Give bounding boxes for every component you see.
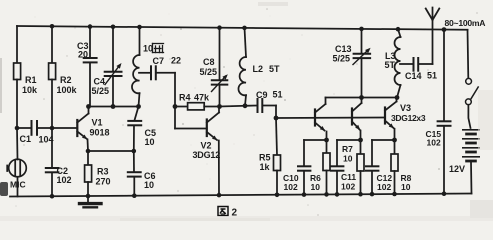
transistor V2 3DG12 xyxy=(175,107,220,196)
capacitor C7 xyxy=(139,56,181,80)
svg-text:51: 51 xyxy=(273,90,283,100)
inductor L2 5T xyxy=(238,28,280,106)
svg-text:R7: R7 xyxy=(342,144,353,154)
capacitor C14 xyxy=(400,58,437,81)
ground xyxy=(80,196,102,207)
node V2 emitter bottom xyxy=(217,193,222,198)
svg-text:C11: C11 xyxy=(341,172,356,182)
node C4 top rail xyxy=(111,25,116,30)
battery 12V xyxy=(449,130,479,194)
scan smudge bottom edge xyxy=(120,218,270,221)
svg-text:20: 20 xyxy=(78,50,88,60)
svg-text:47k: 47k xyxy=(194,93,210,103)
inductor L1 10 turns xyxy=(132,27,164,107)
node L1 bottom / C5 top xyxy=(136,104,141,109)
svg-text:9018: 9018 xyxy=(90,128,110,138)
capacitor C6 xyxy=(128,151,156,196)
svg-text:5T: 5T xyxy=(385,60,396,70)
node L2 top rail xyxy=(242,26,247,31)
wire C7 down to V2 base node xyxy=(174,73,176,107)
node C11 bottom xyxy=(335,192,340,197)
svg-text:3DG12: 3DG12 xyxy=(193,150,221,160)
node C13 bottom on bus xyxy=(359,95,364,100)
svg-text:80~100mA: 80~100mA xyxy=(445,18,486,28)
node C10 bottom xyxy=(302,192,307,197)
svg-text:R1: R1 xyxy=(25,75,37,85)
node R5 bottom xyxy=(275,193,280,198)
wire emitter line to C5/C6 xyxy=(88,150,134,152)
svg-text:10k: 10k xyxy=(22,85,38,95)
capacitor C2 xyxy=(46,128,72,196)
resistor R7 xyxy=(342,140,364,194)
svg-text:R5: R5 xyxy=(259,153,271,163)
scan smudge bottom-left xyxy=(0,182,8,196)
svg-text:C1: C1 xyxy=(20,134,32,144)
svg-text:102: 102 xyxy=(284,182,298,192)
inductor L3 5T xyxy=(385,29,401,97)
svg-text:C7: C7 xyxy=(153,56,165,66)
resistor R8 xyxy=(391,140,412,194)
resistor R5 xyxy=(259,118,281,195)
capacitor C1 xyxy=(17,121,54,145)
node C8 top rail xyxy=(217,25,222,30)
svg-text:10: 10 xyxy=(143,44,153,54)
svg-text:51: 51 xyxy=(427,71,437,81)
svg-text:MIC: MIC xyxy=(10,180,26,190)
node C4 bottom xyxy=(111,104,116,109)
svg-text:1k: 1k xyxy=(260,162,271,172)
node C3 top rail xyxy=(88,24,93,29)
svg-text:5/25: 5/25 xyxy=(200,67,218,77)
svg-text:10: 10 xyxy=(343,154,353,164)
node R2 / C1 / C2 / V1 base xyxy=(50,126,55,131)
svg-text:L2: L2 xyxy=(253,64,264,74)
resistor R6 xyxy=(310,140,330,194)
variable capacitor C8 xyxy=(200,28,228,107)
wire V2 collector to L2/C9 xyxy=(220,105,246,108)
svg-text:100k: 100k xyxy=(57,85,78,95)
svg-text:102: 102 xyxy=(57,175,72,185)
node V1 emitter xyxy=(86,149,91,154)
node R3 bottom xyxy=(86,194,91,199)
node base of R1 / mic junction xyxy=(15,126,20,131)
transistor V1 9018 xyxy=(52,107,110,152)
wire tank bottom line xyxy=(89,106,139,108)
svg-text:10: 10 xyxy=(145,137,155,147)
microphone MIC xyxy=(7,128,26,196)
svg-text:C14: C14 xyxy=(405,71,422,81)
svg-text:10: 10 xyxy=(144,180,154,190)
svg-text:V1: V1 xyxy=(92,118,103,128)
svg-text:10: 10 xyxy=(401,182,411,192)
caption 图 2 xyxy=(218,207,228,216)
svg-text:12V: 12V xyxy=(449,164,465,174)
wire C9 corner down to base bus xyxy=(275,106,277,119)
node C15 bottom xyxy=(442,191,447,196)
transistor V3b xyxy=(352,98,362,141)
svg-text:270: 270 xyxy=(96,177,111,187)
resistor R2 xyxy=(49,26,78,128)
node L2 bottom xyxy=(243,103,248,108)
svg-text:C8: C8 xyxy=(203,57,215,67)
svg-text:R4: R4 xyxy=(179,93,191,103)
svg-text:102: 102 xyxy=(427,138,441,148)
switch S xyxy=(466,30,479,128)
node V1 collector / tank xyxy=(86,104,91,109)
wire bottom ground rail xyxy=(10,194,472,197)
svg-text:22: 22 xyxy=(171,56,181,66)
node R2 top rail xyxy=(50,24,55,29)
node L3 bottom on bus xyxy=(395,95,400,100)
node C12 bottom xyxy=(370,192,375,197)
svg-text:R3: R3 xyxy=(97,167,109,177)
svg-text:R2: R2 xyxy=(60,75,72,85)
wire base bus of V3 xyxy=(276,117,385,120)
svg-text:3DG12x3: 3DG12x3 xyxy=(391,113,426,123)
capacitor C11 xyxy=(331,140,361,194)
wire V3 collector bus xyxy=(326,97,398,99)
svg-text:5T: 5T xyxy=(269,64,280,74)
node C12/emitter V3c xyxy=(392,138,397,143)
svg-text:102: 102 xyxy=(377,182,391,192)
scan smudge left edge xyxy=(0,58,2,113)
variable capacitor C13 xyxy=(333,29,371,98)
node L3 top rail xyxy=(396,27,401,32)
node C2 bottom xyxy=(50,194,55,199)
node R4 / C7 / V2 base xyxy=(173,104,178,109)
node C13 top rail xyxy=(359,27,364,32)
node R6 bottom xyxy=(324,192,329,197)
svg-text:5/25: 5/25 xyxy=(92,86,110,96)
capacitor C15 xyxy=(426,30,451,194)
capacitor C3 xyxy=(77,27,97,107)
capacitor C9 xyxy=(245,90,283,113)
resistor R4 xyxy=(175,93,220,110)
capacitor C5 xyxy=(128,107,156,152)
svg-text:C9: C9 xyxy=(256,90,268,100)
node R5 / base bus xyxy=(274,116,279,121)
transistor V3c xyxy=(385,98,426,141)
svg-text:V3: V3 xyxy=(400,103,411,113)
node R8 bottom xyxy=(392,192,397,197)
svg-text:102: 102 xyxy=(341,182,355,192)
scan smudge right bottom xyxy=(470,200,493,218)
svg-text:V2: V2 xyxy=(201,141,212,151)
transistor V3a xyxy=(315,98,327,141)
resistor R1 xyxy=(14,26,38,128)
variable capacitor C4 xyxy=(92,27,122,107)
node C6 bottom xyxy=(132,193,137,198)
wire top supply rail xyxy=(17,26,468,30)
capacitor C12 xyxy=(366,140,395,194)
node C10/emitter V3a xyxy=(324,138,329,143)
node C11/emitter V3b xyxy=(358,138,363,143)
node V2 collector / C8 / R4 xyxy=(217,104,222,109)
antenna xyxy=(426,8,440,65)
svg-text:10: 10 xyxy=(311,182,321,192)
node C5 bottom / C6 top xyxy=(132,149,137,154)
node L1 top rail xyxy=(137,25,142,30)
capacitor C10 xyxy=(283,140,327,195)
node R7 bottom xyxy=(358,192,363,197)
resistor R3 xyxy=(85,151,111,196)
svg-text:5/25: 5/25 xyxy=(333,54,351,64)
node C15 top on rail xyxy=(442,27,447,32)
svg-text:C13: C13 xyxy=(335,44,352,54)
svg-text:C4: C4 xyxy=(94,77,106,87)
